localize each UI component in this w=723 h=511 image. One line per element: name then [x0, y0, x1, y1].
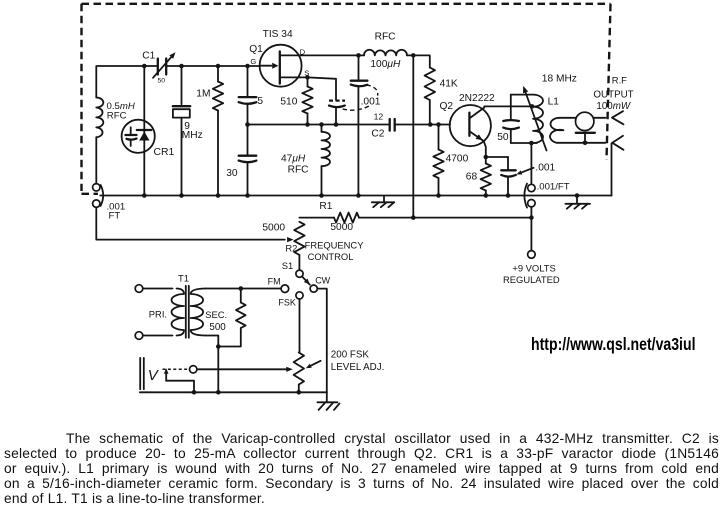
switch S1 contact FSK [296, 292, 303, 299]
svg-text:C1: C1 [142, 51, 155, 62]
svg-text:CW: CW [315, 275, 330, 285]
wire: bottom ground bus [140, 391, 327, 393]
shield enclosure dashed border (right edge) [607, 4, 611, 160]
svg-text:MHz: MHz [182, 130, 203, 141]
junction: CR1 branch on top rail [142, 64, 147, 69]
svg-text:RFC: RFC [375, 31, 396, 42]
capacitor C1 50pF variable (series in top rail) [157, 59, 159, 75]
transformer T1 primary winding [171, 289, 184, 336]
feedthrough capacitor .001/FT (right) [528, 184, 535, 191]
capacitor (source bypass, next to 510) [329, 99, 345, 101]
svg-text:TIS 34: TIS 34 [263, 29, 293, 40]
wire: T1 primary leads [143, 288, 173, 290]
terminal: T1 input (top) [135, 285, 143, 293]
chassis ground (main bus) [383, 196, 385, 203]
wire: Q1 source node [280, 76, 308, 78]
wire: Q2 collector to L1 tap [484, 105, 532, 107]
svg-text:L1: L1 [548, 97, 560, 108]
svg-text:REGULATED: REGULATED [503, 274, 560, 285]
wire: +9V terminal drop [530, 218, 532, 251]
wire: T1 secondary to FM contact [206, 288, 282, 290]
wire: emitter node to bypass cap [486, 156, 508, 158]
svg-text:Q1: Q1 [249, 44, 263, 55]
shield enclosure dashed border (top edge) [82, 3, 611, 5]
wire: T1 secondary return [206, 336, 219, 393]
shield enclosure dashed border (bottom-left stub) [82, 193, 99, 195]
svg-text:5000: 5000 [330, 222, 353, 233]
watermark URL text [531, 334, 695, 355]
svg-text:30: 30 [226, 168, 238, 179]
svg-text:+9 VOLTS: +9 VOLTS [512, 263, 555, 274]
wiper arrow of FSK level pot [286, 367, 293, 372]
junction: emitter bypass at ground bus [506, 193, 511, 198]
svg-text:68: 68 [466, 172, 478, 183]
junction: 510 at source bus [305, 122, 310, 127]
svg-text:50: 50 [497, 132, 509, 143]
figure caption [4, 431, 719, 506]
chassis ground (bottom) [326, 392, 328, 401]
junction: 500 resistor tap [239, 286, 244, 291]
junction: 41K at base rail [428, 122, 433, 127]
svg-text:FREQUENCY: FREQUENCY [305, 239, 365, 250]
svg-text:S1: S1 [282, 260, 293, 271]
wire: tank to feedthrough [530, 143, 532, 184]
resistor R1 5000 [299, 217, 334, 219]
wire: FSK contact down [299, 299, 301, 353]
junction: drain bypass node [356, 53, 361, 58]
switch S1 contact CW [310, 285, 317, 292]
inductor: L1 output link (secondary) [550, 118, 605, 143]
feedthrough capacitor .001 FT (bottom left) [93, 184, 100, 191]
resistor 510 [307, 77, 309, 86]
resistor 68 [485, 157, 487, 164]
junction: crystal at ground bus [179, 193, 184, 198]
svg-text:V: V [148, 367, 160, 384]
potentiometer 200 FSK LEVEL ADJ [294, 353, 304, 385]
svg-text:2N2222: 2N2222 [459, 93, 495, 104]
wire: source bus (mid rail) [248, 124, 390, 126]
junction: 47uH at ground bus [319, 193, 324, 198]
svg-text:47μH: 47μH [281, 153, 306, 164]
wire: +9V feed vertical [412, 55, 414, 217]
svg-text:OUTPUT: OUTPUT [593, 89, 633, 100]
svg-text:510: 510 [280, 96, 297, 107]
junction: emitter node [484, 155, 489, 160]
wire: RFC junction to 41K [413, 55, 430, 67]
inductor L1 [533, 95, 543, 143]
wire: tank top [511, 94, 533, 96]
svg-text:T1: T1 [178, 272, 189, 283]
svg-text:C2: C2 [371, 129, 384, 140]
svg-text:G: G [250, 57, 256, 66]
junction: capacitor-5 branch on top rail [245, 64, 250, 69]
svg-text:1M: 1M [196, 89, 210, 100]
svg-text:R1: R1 [319, 201, 332, 212]
resistor 4700 [438, 125, 440, 150]
wiper arrow of R2 [287, 237, 294, 242]
svg-text:R.F: R.F [612, 74, 627, 85]
junction: collector tap on L1 [530, 104, 535, 109]
switch S1 arm [302, 276, 310, 284]
junction: 4700 at ground bus [436, 193, 441, 198]
junction: secondary return at bottom bus [216, 390, 221, 395]
wire: +9V bus [413, 217, 531, 219]
capacitor 50 (tank, variable) [510, 95, 512, 120]
junction: FSK pot at bottom bus [297, 390, 302, 395]
crystal 9 MHz [173, 105, 190, 107]
coax chevron (center conductor) [612, 111, 624, 124]
terminal: T1 input (bottom) [135, 332, 143, 340]
svg-text:RFC: RFC [107, 110, 127, 121]
junction: crystal branch on top rail [179, 64, 184, 69]
shield enclosure dashed border (left edge) [80, 4, 82, 191]
junction: CR1 at ground bus [142, 193, 147, 198]
inductor RFC 0.5mH [96, 98, 103, 138]
svg-text:SEC.: SEC. [205, 309, 227, 320]
resistor 41K [425, 68, 435, 101]
chassis ground (output shell) [575, 193, 580, 198]
wire: feedthrough to +9V bus [530, 207, 532, 218]
varactor diode CR1 [122, 120, 155, 153]
wire: main ground bus [100, 195, 611, 197]
wire: C2 to Q2 base [395, 124, 450, 126]
svg-text:41K: 41K [440, 79, 458, 90]
svg-text:PRI.: PRI. [149, 308, 167, 319]
resistor 1M [217, 66, 219, 82]
capacitor 30 (feedback divider) [247, 125, 249, 156]
svg-text:5: 5 [257, 96, 263, 107]
potentiometer R2 5000 (frequency control) [294, 222, 304, 255]
junction: 47uH at source bus [319, 122, 324, 127]
svg-text:5000: 5000 [262, 222, 285, 233]
svg-text:4700: 4700 [446, 153, 469, 164]
wire: feedthrough to R2 wiper [96, 207, 284, 239]
junction: 1M at ground bus [216, 193, 221, 198]
wire: CW contact to ground [317, 289, 327, 393]
svg-text:FSK: FSK [278, 297, 296, 307]
junction: secondary return [216, 344, 221, 349]
junction: V jack sleeve at bottom bus [192, 390, 197, 395]
svg-text:CR1: CR1 [154, 147, 175, 158]
capacitor .001 (drain bypass) [358, 55, 360, 80]
junction: 4700 at base rail [436, 122, 441, 127]
wire: 0.5mH RFC to feedthrough [95, 137, 97, 183]
resistor 500 (across secondary) [240, 289, 242, 303]
transistor Q2 2N2222 [450, 105, 491, 146]
svg-text:R2: R2 [285, 242, 297, 253]
svg-text:200 FSK: 200 FSK [331, 349, 370, 360]
wire: CR1 branch [143, 66, 145, 196]
svg-text:LEVEL ADJ.: LEVEL ADJ. [331, 362, 385, 373]
terminal: +9V supply [528, 251, 536, 259]
junction: 68 at ground bus [484, 193, 489, 198]
wire: Q2 emitter [484, 141, 486, 157]
junction: source node [305, 75, 310, 80]
junction: tank bottom feed [529, 141, 534, 146]
svg-text:500: 500 [209, 322, 226, 333]
switch S1 pole [296, 270, 303, 277]
svg-text:CONTROL: CONTROL [308, 251, 354, 262]
wire: FSK wiper line [197, 368, 288, 370]
svg-text:Q2: Q2 [440, 101, 454, 112]
inductor RFC 100 uH [359, 54, 365, 56]
junction: RFC to +9V feed [411, 53, 416, 58]
transistor Q1 TIS 34 (FET) [260, 45, 302, 87]
svg-text:100μH: 100μH [370, 59, 401, 70]
svg-text:18 MHz: 18 MHz [542, 74, 577, 85]
svg-text:12: 12 [374, 111, 384, 121]
junction: +9V feed at bus [411, 215, 416, 220]
svg-text:100mW: 100mW [596, 101, 632, 112]
wire: tank bottom [511, 142, 537, 144]
jack: RF output connector [576, 112, 594, 130]
wire: crystal branch (bottom) [181, 118, 183, 196]
svg-text:FM: FM [268, 277, 281, 287]
svg-text:.001/FT: .001/FT [537, 182, 570, 193]
wire: crystal branch (top) [181, 66, 183, 104]
switch S1 contact FM [281, 285, 289, 293]
svg-text:.001: .001 [535, 163, 555, 174]
wire: Q1 drain to RFC 100uH [280, 54, 359, 56]
junction: 1M branch on top rail [216, 64, 221, 69]
wire: left branch top corner [96, 66, 157, 98]
svg-text:50: 50 [158, 78, 166, 85]
coax chevron (shield) [612, 136, 623, 150]
jack: FSK keying input V [139, 358, 141, 389]
svg-text:RFC: RFC [288, 164, 309, 175]
inductor RFC 47 uH [321, 125, 323, 132]
slug-tuning arrow of L1 [525, 90, 547, 151]
capacitor C2 12pF (series) [389, 119, 391, 131]
wire: output shell return [611, 143, 613, 195]
transformer T1 secondary winding [191, 289, 206, 336]
svg-text:.001: .001 [361, 96, 381, 107]
wire: top rail C1 to Q1 gate [166, 65, 260, 67]
junction: drain bypass at ground bus [356, 193, 361, 198]
junction: source bypass at source bus [334, 122, 339, 127]
svg-text:FT: FT [109, 211, 121, 222]
junction: capacitor 30 at ground bus [245, 193, 250, 198]
capacitor .001 (emitter bypass) [507, 157, 509, 170]
junction: +9V terminal at bus [529, 215, 534, 220]
junction: divider tap on source bus [245, 122, 250, 127]
transformer T1 core [185, 286, 187, 338]
capacitor 5 (feedback divider) [247, 66, 249, 96]
